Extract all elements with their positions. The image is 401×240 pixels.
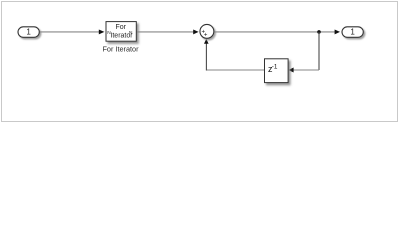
For Iterator block U1 — [106, 22, 136, 42]
svg-text:-1: -1 — [272, 63, 278, 70]
arrowhead into Sum left — [193, 29, 198, 34]
inport block 1 (left oval) — [18, 27, 39, 38]
svg-text:+: + — [204, 32, 208, 38]
border frame — [2, 2, 398, 122]
wire: inport 1 to For Iterator — [40, 31, 101, 33]
svg-text:For: For — [115, 24, 126, 31]
unit delay block z-1 — [265, 59, 289, 83]
svg-text:For Iterator: For Iterator — [102, 44, 139, 53]
svg-text:N: N — [129, 30, 133, 36]
wire: feedback vertical from junction — [318, 32, 320, 70]
arrowhead into Sum bottom — [204, 39, 209, 44]
canvas background — [0, 0, 401, 125]
junction node — [317, 30, 321, 34]
wire: feedback vertical up to Sum — [205, 43, 207, 71]
sum block — [200, 24, 214, 38]
wire: Sum to Outport with junction — [214, 31, 336, 33]
outport block 1 (right oval) — [342, 27, 363, 38]
wire: feedback horizontal into z-1 — [293, 69, 319, 71]
arrowhead into Outport — [335, 29, 340, 34]
arrowhead into For Iterator — [99, 29, 105, 34]
svg-text:N: N — [107, 30, 111, 36]
wire: z-1 output left — [207, 69, 265, 71]
arrowhead into z-1 right side — [288, 68, 293, 73]
svg-text:1: 1 — [350, 28, 355, 37]
svg-text:1: 1 — [26, 28, 31, 37]
wire: For Iterator to Sum — [137, 31, 195, 33]
